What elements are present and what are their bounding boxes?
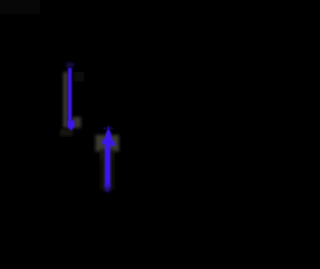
up arrow: shaft (105, 144, 111, 188)
up arrow: mast above tip (107, 126, 109, 134)
down arrow: faint start blob (66, 62, 75, 67)
up arrow: tick marks at tip (103, 128, 106, 130)
down arrow: head (67, 121, 74, 131)
up arrow: head upper block (105, 130, 111, 139)
down arrow: shaft (68, 68, 72, 121)
artifact halo along up-arrow shaft (101, 150, 114, 190)
artifact patch right of down-arrow shaft top (74, 72, 85, 82)
faint panel top-left (0, 0, 40, 14)
up arrow: head wings (102, 134, 116, 147)
artifact blob below down-arrow (60, 129, 73, 136)
artifact patch around up-arrow head (96, 135, 120, 152)
artifact patch below up-arrow head (101, 152, 113, 161)
artifact patch right of down-arrow head (72, 117, 81, 128)
up arrow: shaft fading tail (105, 185, 109, 192)
artifact patch left of down-arrow shaft (63, 72, 68, 128)
